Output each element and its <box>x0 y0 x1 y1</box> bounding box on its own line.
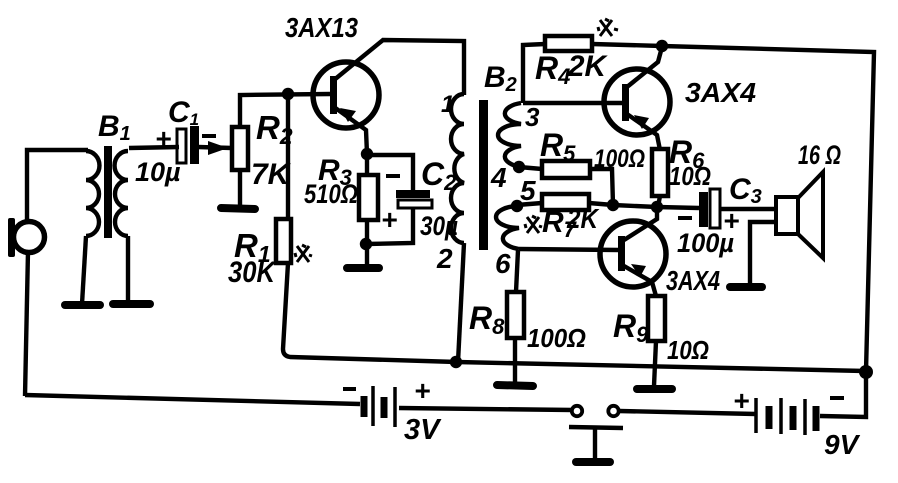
svg-text:3: 3 <box>525 102 540 132</box>
svg-text:3V: 3V <box>404 414 442 446</box>
svg-text:16 Ω: 16 Ω <box>798 140 841 170</box>
svg-text:+: + <box>414 375 430 406</box>
svg-text:+: + <box>733 385 749 416</box>
svg-text:4: 4 <box>490 162 507 193</box>
svg-text:2: 2 <box>436 243 453 274</box>
svg-text:5: 5 <box>520 175 536 206</box>
svg-text:3AX4: 3AX4 <box>685 77 756 108</box>
svg-text:7K: 7K <box>251 158 292 191</box>
svg-text:30µ: 30µ <box>420 211 458 241</box>
svg-text:6: 6 <box>495 248 511 279</box>
svg-text:10µ: 10µ <box>135 157 181 187</box>
svg-text:+: + <box>381 204 397 235</box>
svg-text:1: 1 <box>441 91 454 118</box>
svg-text:2K: 2K <box>567 50 608 83</box>
svg-text:+: + <box>155 123 171 154</box>
svg-text:3AX13: 3AX13 <box>285 12 358 43</box>
svg-text:100µ: 100µ <box>677 228 734 258</box>
svg-text:9V: 9V <box>824 429 861 460</box>
svg-text:100Ω: 100Ω <box>527 323 586 353</box>
svg-text:10Ω: 10Ω <box>667 335 709 365</box>
svg-text:2K: 2K <box>566 203 599 234</box>
svg-text:100Ω: 100Ω <box>594 145 645 173</box>
svg-text:3AX4: 3AX4 <box>666 265 720 296</box>
svg-text:30K: 30K <box>228 256 277 289</box>
svg-text:510Ω: 510Ω <box>304 179 358 209</box>
svg-text:10Ω: 10Ω <box>669 161 711 191</box>
